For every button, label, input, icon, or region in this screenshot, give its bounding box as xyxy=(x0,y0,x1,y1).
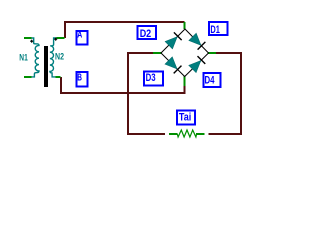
svg-text:D2: D2 xyxy=(140,28,152,40)
svg-text:A: A xyxy=(77,29,82,40)
wire stub: primary bottom terminal (green) xyxy=(24,76,32,78)
label box Tai xyxy=(177,111,195,125)
label box D3 xyxy=(144,72,163,86)
diode D4 (bottom vertex to right vertex) xyxy=(189,56,206,73)
diode D1 (top vertex to right vertex) xyxy=(189,33,206,50)
wire stub: bridge right vertex pin (green) xyxy=(208,52,216,54)
transformer core xyxy=(44,46,48,87)
label box D1 xyxy=(209,22,228,35)
bridge diamond sides xyxy=(161,29,209,77)
svg-text:D4: D4 xyxy=(205,74,216,86)
transformer secondary polarity mark xyxy=(54,38,57,41)
label box D2 xyxy=(138,26,157,39)
transformer primary winding N1 xyxy=(32,38,40,77)
wire: node A top run (transformer secondary top to bridge top vertex) xyxy=(65,22,185,38)
label box D4 xyxy=(204,73,221,87)
transformer secondary winding N2 xyxy=(50,38,57,77)
svg-text:N2: N2 xyxy=(55,52,64,62)
wire stub: secondary bottom pin (green) xyxy=(56,76,61,78)
node label box A xyxy=(77,31,88,45)
svg-text:N1: N1 xyxy=(19,52,28,62)
wire stub: bridge bottom vertex pin (green) xyxy=(184,76,186,86)
transformer primary polarity mark xyxy=(30,40,33,43)
diode D2 (left vertex to top vertex) xyxy=(165,32,182,49)
wire stub: bridge top vertex pin (green) xyxy=(184,22,186,29)
svg-text:Tai: Tai xyxy=(179,112,191,124)
wire: DC plus (load right to bridge right vertex) xyxy=(209,53,242,134)
resistor Tai (load) left lead xyxy=(169,133,178,135)
node label box B xyxy=(77,72,88,87)
wire stub: primary top terminal (green) xyxy=(24,37,32,39)
resistor Tai right lead xyxy=(196,133,204,135)
svg-text:D1: D1 xyxy=(210,24,220,36)
wire: node B run (secondary bottom to bridge bottom vertex) xyxy=(61,77,186,93)
svg-text:D3: D3 xyxy=(146,72,156,84)
wire stub: secondary top pin (green) xyxy=(57,37,65,39)
diode D3 (left vertex to bottom vertex) xyxy=(165,57,182,74)
svg-text:B: B xyxy=(77,72,82,84)
resistor Tai zigzag xyxy=(177,130,196,137)
wire stub: bridge left vertex pin (green) xyxy=(153,52,162,54)
wire: DC minus (bridge left vertex to load via bottom rail) xyxy=(128,53,165,134)
